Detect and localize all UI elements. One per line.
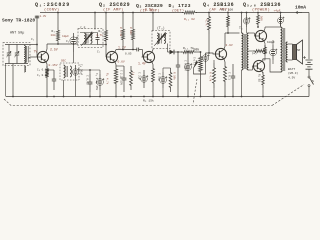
- capacitor C2 10uF: [73, 33, 75, 40]
- driver transformer secondary: [247, 33, 249, 70]
- variable capacitor CT2: [16, 45, 18, 54]
- antenna tap wire: [28, 44, 37, 46]
- D1 input wire: [168, 51, 170, 53]
- driver transformer primary: [242, 33, 244, 70]
- svg-text:R₂ 5Ω: R₂ 5Ω: [258, 74, 261, 82]
- C16 to T4 top: [246, 27, 248, 33]
- junction C2 wire: [73, 43, 75, 45]
- svg-text:SP: SP: [297, 49, 301, 52]
- T1 tuning arrow: [81, 32, 93, 47]
- Q2 collector up wire: [115, 50, 116, 53]
- svg-text:C₃ 0.01: C₃ 0.01: [37, 74, 48, 77]
- Q3 base wire: [142, 56, 144, 58]
- junction R7b gnd: [130, 96, 132, 98]
- junction rail R19: [257, 12, 259, 14]
- junction C4 gnd: [99, 96, 101, 98]
- resistor R7 emitter Q2: [114, 65, 117, 89]
- resistor R7b bias: [130, 66, 133, 90]
- R7b gnd: [130, 90, 132, 97]
- speaker wire top: [288, 43, 293, 45]
- resistor R6 3.3k: [122, 26, 125, 43]
- svg-text:OSC: OSC: [61, 60, 66, 63]
- oscillator coil winding 1: [64, 65, 66, 78]
- wiper to coupling cap: [194, 63, 206, 74]
- svg-text:50k: 50k: [194, 48, 200, 52]
- Q6 collector wire: [262, 60, 272, 62]
- resistor R19 bias Q5: [257, 13, 260, 28]
- battery feed wire: [308, 13, 310, 60]
- T3 primary coil: [157, 33, 159, 44]
- svg-text:R₁: R₁: [52, 30, 56, 33]
- R13 gnd: [213, 88, 215, 97]
- C3 top tie to emitter: [47, 69, 54, 71]
- osc core line 2: [66, 66, 68, 77]
- svg-text:(CONV): (CONV): [44, 7, 59, 12]
- svg-text:R 4.7k: R 4.7k: [209, 72, 213, 82]
- antenna tuning box: [3, 43, 30, 66]
- svg-text:C 0.1: C 0.1: [228, 72, 231, 80]
- resistor R18 emitter Q6: [262, 72, 265, 88]
- svg-text:(T₃): (T₃): [157, 26, 165, 30]
- svg-text:3.9V: 3.9V: [226, 44, 233, 47]
- junction osc gnd: [63, 96, 65, 98]
- junction rail T4 feed: [241, 12, 243, 14]
- resistor R15 4.7k: [208, 13, 211, 35]
- capacitor inside T1: [97, 33, 99, 38]
- R23 to collector node: [227, 30, 229, 33]
- capacitor C11 10uF: [162, 72, 164, 79]
- junction pot gnd: [200, 96, 202, 98]
- svg-text:C.F: C.F: [80, 27, 86, 30]
- ferrite core line 2: [27, 46, 29, 63]
- T4 sec bottom to Q6 base: [249, 69, 253, 71]
- junction Q4 emitter gnd: [224, 96, 226, 98]
- svg-text:Q₄ 2SB136: Q₄ 2SB136: [203, 2, 234, 8]
- T4 primary top feed: [241, 32, 243, 34]
- C17 bottom: [272, 60, 274, 64]
- svg-text:R 82k: R 82k: [129, 27, 133, 35]
- tuning gang dashed link: [4, 99, 272, 106]
- svg-text:2.5V: 2.5V: [50, 48, 58, 52]
- T4 feed drop: [241, 13, 243, 34]
- junction antenna ground: [12, 96, 14, 98]
- C6 top: [89, 70, 91, 74]
- battery to switch: [308, 69, 310, 76]
- pot shaft dashed link: [193, 79, 197, 104]
- junction R15 base: [208, 52, 210, 54]
- C2 bottom to bus: [73, 48, 75, 52]
- resistor R13 bias Q4: [213, 63, 216, 88]
- svg-text:Q₅,₆ 2SB136: Q₅,₆ 2SB136: [243, 2, 281, 8]
- R19 to Q5 collector wire: [258, 26, 265, 28]
- svg-text:+4µF: +4µF: [274, 10, 281, 13]
- C9 to ground: [123, 92, 125, 97]
- C11 top: [162, 68, 164, 72]
- svg-text:D₁ 1T23: D₁ 1T23: [169, 3, 191, 9]
- svg-text:0.6V: 0.6V: [118, 61, 125, 64]
- transistor Q4: [215, 48, 226, 59]
- svg-text:R 3.3k: R 3.3k: [119, 27, 123, 37]
- svg-text:(IF AMP): (IF AMP): [103, 7, 124, 12]
- antenna box bottom wire: [5, 63, 28, 65]
- junction rail R1: [57, 12, 59, 14]
- osc block drop 2: [75, 79, 77, 97]
- R1 lead: [57, 13, 59, 28]
- T4 core line 2: [245, 34, 247, 69]
- T1 secondary coil: [91, 34, 92, 44]
- C3 gnd: [53, 90, 55, 97]
- pot bottom to gnd: [200, 76, 202, 97]
- osc core line 1: [65, 66, 67, 77]
- osc block drop 1: [63, 80, 65, 97]
- OPT core line 2: [284, 28, 286, 71]
- svg-text:S: S: [312, 80, 314, 83]
- resistor R17 emitter Q5: [264, 45, 267, 56]
- C9 top tie: [116, 65, 124, 67]
- Q6 emitter down: [262, 71, 263, 74]
- antenna coil L1: [24, 46, 26, 64]
- resistor R4 emitter Q1: [45, 66, 48, 80]
- C13 top: [187, 52, 189, 58]
- antenna secondary coil: [24, 66, 26, 72]
- junction C13 gnd: [187, 96, 189, 98]
- oscillator coil box T2: [60, 63, 79, 80]
- T4 core line 1: [243, 34, 245, 69]
- junction R6 collector bus: [122, 49, 124, 51]
- Q2 emitter drop: [115, 65, 117, 97]
- Q3 collector up wire: [152, 49, 153, 53]
- svg-text:C₉ 3.3µ 25V: C₉ 3.3µ 25V: [95, 73, 98, 91]
- speaker wire bottom: [288, 59, 293, 61]
- R12 gnd: [170, 92, 172, 97]
- decoupling bus 2: [79, 69, 100, 71]
- ferrite core line 1: [26, 46, 28, 63]
- potentiometer VR 50k: [199, 52, 203, 76]
- Q2 emitter down wire: [115, 62, 116, 65]
- junction R13 gnd: [213, 96, 215, 98]
- Q6 collector down: [262, 59, 263, 62]
- svg-text:10k: 10k: [51, 33, 56, 37]
- svg-text:C 10µ: C 10µ: [158, 73, 161, 81]
- Q5 emitter down: [264, 41, 265, 47]
- T1 internal top wire: [80, 32, 98, 34]
- capacitor C1 plates: [35, 16, 39, 18]
- C6 gnd: [89, 92, 91, 97]
- resistor R1 10k: [57, 27, 60, 44]
- svg-text:1k: 1k: [132, 72, 136, 76]
- junction Q3 emitter gnd: [152, 96, 154, 98]
- junction T4 gnd: [241, 96, 243, 98]
- svg-text:10µF: 10µF: [62, 35, 69, 38]
- svg-text:R₂₂ 62: R₂₂ 62: [184, 18, 195, 21]
- capacitor C13 5uF: [187, 58, 189, 66]
- junction C3 gnd: [53, 96, 55, 98]
- R17 to node: [265, 56, 266, 58]
- junction C6 gnd: [89, 96, 91, 98]
- Q1 emitter to ground: [46, 80, 48, 97]
- transistor Q6: [253, 60, 264, 71]
- junction R19 node: [257, 26, 259, 28]
- capacitor C14 coupling: [205, 53, 207, 57]
- T3 secondary out drop: [167, 44, 169, 53]
- C4 top: [99, 70, 101, 74]
- T3 core line 1: [159, 34, 161, 44]
- junction Q6 emitter gnd: [262, 96, 264, 98]
- decoupling bus: [73, 52, 75, 63]
- base wire Q1: [30, 56, 37, 58]
- output transformer primary: [281, 27, 283, 72]
- R5 to Q2 base: [105, 45, 107, 58]
- IF transformer T1 box: [78, 29, 103, 48]
- junction C13 node: [187, 51, 189, 53]
- junction tap: [36, 44, 38, 46]
- capacitor C10b 2uF: [143, 70, 145, 78]
- Q1 collector up wire: [46, 44, 47, 52]
- antenna drop to ground: [12, 64, 14, 97]
- T1 secondary out: [94, 45, 96, 49]
- svg-text:10mA: 10mA: [295, 5, 306, 11]
- capacitor C5 electrolytic: [75, 65, 77, 71]
- AGC tie: [163, 67, 171, 69]
- svg-text:Sony TR-1820: Sony TR-1820: [2, 18, 35, 24]
- resistor R23 100: [227, 13, 230, 31]
- T4 primary bottom drop: [241, 70, 243, 97]
- junction rail T1 tap: [94, 12, 96, 14]
- resistor R5 4.7k: [105, 27, 108, 45]
- OPT primary center tap: [277, 49, 281, 51]
- junction C16 rail: [246, 12, 248, 14]
- svg-text:(a): (a): [252, 51, 258, 55]
- T4 sec center tap: [249, 50, 254, 52]
- junction C15 gnd: [232, 96, 234, 98]
- resistor R8 82k: [132, 26, 135, 43]
- Q4 emitter down: [224, 59, 225, 62]
- junction rail OPT: [280, 12, 282, 14]
- antenna secondary to base: [23, 67, 25, 72]
- capacitor C12 det filter: [177, 52, 179, 65]
- T1 centre tap to rail: [94, 13, 96, 30]
- junction C12 gnd: [177, 96, 179, 98]
- resistor R11 7k: [181, 51, 196, 54]
- speaker: [293, 45, 297, 60]
- T1 internal bottom wire: [80, 44, 98, 46]
- C13 gnd: [187, 76, 189, 97]
- Q2 collector bus: [116, 49, 133, 51]
- diode D1: [170, 50, 175, 55]
- transistor Q3: [143, 51, 154, 62]
- AGC bias vertical wire: [36, 16, 38, 58]
- junction bus C6: [89, 69, 91, 71]
- R8 lead: [132, 13, 134, 27]
- transistor Q2: [106, 51, 117, 62]
- antenna coil tap to Q1 base: [28, 57, 30, 59]
- C12 gnd: [177, 80, 179, 97]
- junction R8 bus: [132, 49, 134, 51]
- Q4 collector to T4: [225, 32, 240, 34]
- Q6 collector to OPT: [262, 59, 281, 72]
- junction C11 gnd: [162, 96, 164, 98]
- svg-text:R₂₃ 100: R₂₃ 100: [221, 9, 233, 12]
- battery B1: [306, 60, 313, 69]
- pot wiper arrow: [194, 60, 199, 68]
- ground rail: [6, 96, 309, 98]
- resistor R10 emitter Q3: [152, 65, 155, 87]
- switch to ground rail: [308, 87, 310, 97]
- svg-text:C₆ 30µF: C₆ 30µF: [80, 64, 83, 76]
- T1 primary coil: [84, 33, 86, 44]
- detector out wire: [196, 51, 201, 53]
- resistor R14 emitter Q4: [224, 62, 227, 86]
- C14 top to base wire: [206, 53, 216, 54]
- svg-text:(POWER): (POWER): [252, 7, 270, 12]
- junction C10b gnd: [143, 96, 145, 98]
- bias node drop: [265, 51, 267, 54]
- R10 to gnd: [152, 86, 154, 97]
- junction pot top: [200, 51, 202, 53]
- T1 core line 1: [85, 34, 87, 44]
- output transformer secondary: [286, 42, 288, 62]
- R8 drop: [132, 43, 134, 50]
- svg-text:T₄: T₄: [239, 26, 243, 30]
- rail current arrow: [296, 11, 302, 14]
- T1 core line 2: [87, 34, 89, 44]
- svg-text:7V: 7V: [34, 50, 38, 54]
- junction R23 collector: [227, 32, 229, 34]
- junction Q1 emitter ground: [46, 96, 48, 98]
- C11 gnd: [162, 88, 164, 97]
- D1 output wire: [174, 51, 182, 53]
- IF transformer T3 box: [152, 31, 170, 49]
- oscillator coil winding 2: [70, 66, 71, 77]
- R5 lead: [105, 13, 107, 28]
- junction rail R5: [105, 12, 107, 14]
- T3 tuning arrow: [154, 32, 167, 46]
- Q1 collector wire: [46, 45, 47, 53]
- R6 lead: [122, 13, 124, 27]
- junction rail T3 feed: [152, 12, 154, 14]
- R18 gnd: [262, 88, 264, 97]
- capacitor C15: [232, 64, 234, 76]
- Q5 collector up: [264, 27, 265, 31]
- svg-text:0.05: 0.05: [125, 53, 132, 56]
- T1 out link: [98, 44, 107, 46]
- svg-text:560: 560: [260, 16, 263, 21]
- svg-text:BATT: BATT: [288, 68, 295, 71]
- emitter join wire: [263, 56, 265, 60]
- transistor Q5: [255, 30, 266, 41]
- C15 gnd: [232, 90, 234, 97]
- svg-text:−8.6V: −8.6V: [143, 8, 153, 12]
- svg-text:4.7k: 4.7k: [205, 19, 209, 26]
- capacitor C3 0.01: [53, 70, 55, 79]
- svg-text:R 10k: R 10k: [173, 72, 177, 80]
- R7 to ground: [115, 88, 117, 97]
- svg-text:C 2µF: C 2µF: [138, 72, 141, 80]
- top power rail: [40, 12, 309, 14]
- C17 top: [272, 40, 274, 45]
- resistor R22 62 inline rail: [183, 11, 196, 14]
- Q6 base wire: [252, 66, 255, 70]
- C4 gnd: [99, 90, 101, 97]
- svg-text:0.15V: 0.15V: [49, 64, 58, 67]
- svg-text:R₃ 4.7k: R₃ 4.7k: [106, 73, 110, 85]
- OPT feed from rail: [280, 13, 282, 28]
- svg-text:R₉ 15k: R₉ 15k: [143, 99, 154, 103]
- OPT core line 1: [282, 28, 284, 71]
- T3 core line 2: [160, 34, 162, 44]
- svg-text:1.3V: 1.3V: [40, 15, 47, 18]
- resistor R16 bias: [253, 50, 266, 53]
- svg-text:100µF: 100µF: [267, 41, 275, 44]
- T3 feed drop: [152, 13, 154, 31]
- capacitor C9 bypass: [123, 66, 125, 78]
- junction T1 out: [105, 44, 107, 46]
- R6 drop: [122, 43, 124, 50]
- svg-text:Q₂ 2SC829: Q₂ 2SC829: [99, 2, 130, 8]
- svg-text:Q₁:2SC829: Q₁:2SC829: [35, 2, 70, 8]
- svg-text:C₇: C₇: [97, 51, 101, 54]
- svg-text:C 0.02: C 0.02: [86, 75, 89, 85]
- svg-text:C+(T): C+(T): [193, 57, 197, 65]
- svg-text:1.4V: 1.4V: [138, 62, 146, 66]
- C10b gnd: [143, 88, 145, 97]
- svg-text:C 2.2µ 25V: C 2.2µ 25V: [120, 70, 123, 86]
- C10 to Q3 base: [142, 50, 144, 58]
- svg-text:R₁₁ 7k: R₁₁ 7k: [183, 46, 194, 50]
- junction C9 gnd: [123, 96, 125, 98]
- capacitor C10 coupling: [133, 49, 137, 51]
- junction rail R8: [132, 12, 134, 14]
- resistor R22 zigzag: [182, 11, 197, 14]
- svg-text:C₂: C₂: [66, 40, 70, 43]
- Q3 emitter down wire: [152, 62, 153, 65]
- resistor R12: [169, 68, 172, 92]
- Q4 collector up: [224, 33, 225, 49]
- junction rail R15: [208, 12, 210, 14]
- junction R1 node: [57, 43, 59, 45]
- junction R23 rail: [227, 12, 229, 14]
- Q1 emitter down wire: [46, 62, 47, 68]
- T3 secondary coil: [164, 34, 165, 44]
- svg-text:4.5V: 4.5V: [288, 77, 295, 80]
- svg-text:C₄ 0.005: C₄ 0.005: [37, 69, 50, 72]
- C16 rail stub: [246, 13, 248, 16]
- capacitor C4 3.3uF: [99, 74, 101, 81]
- capacitor C18 4uF: [280, 15, 282, 20]
- svg-text:R₅: R₅: [99, 30, 103, 33]
- antenna drop 2: [5, 64, 7, 97]
- svg-text:C 0.047: C 0.047: [184, 60, 187, 71]
- svg-text:ANT 50µ: ANT 50µ: [10, 32, 24, 36]
- R13 top: [213, 60, 215, 63]
- gang link to switch dashed: [272, 85, 304, 106]
- collector feed wire: [47, 43, 78, 45]
- Q5 collector to OPT: [265, 26, 281, 28]
- capacitor C6 0.02: [89, 74, 91, 82]
- R14 gnd: [224, 86, 226, 97]
- svg-text:4.7k: 4.7k: [96, 33, 103, 37]
- junction C12 node: [177, 51, 179, 53]
- antenna box top wire: [5, 44, 28, 46]
- junction Q2 emitter gnd: [115, 96, 117, 98]
- R15 drop to base: [208, 34, 210, 53]
- capacitor C16 100uF: [246, 15, 248, 20]
- switch S1: [308, 76, 310, 78]
- variable capacitor CT1: [8, 45, 10, 54]
- transistor Q1: [37, 51, 48, 62]
- svg-text:(UM-3): (UM-3): [288, 71, 298, 75]
- Q5 base wire: [254, 33, 257, 36]
